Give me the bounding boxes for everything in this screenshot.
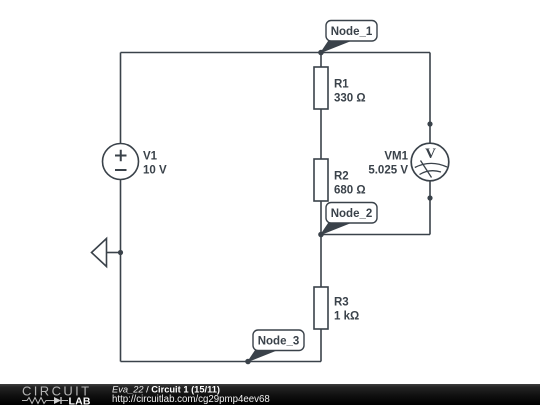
wire: top horizontal right segment (Node_1 to VM1 branch) xyxy=(321,52,430,54)
wire: R1 bottom to R2 top xyxy=(320,109,322,159)
svg-text:LAB: LAB xyxy=(69,396,91,405)
svg-text:5.025 V: 5.025 V xyxy=(368,165,408,177)
VM1 terminal dot top xyxy=(427,121,432,126)
label R1 xyxy=(334,79,349,91)
wire: VM1 bottom lead vertical xyxy=(429,181,431,235)
svg-text:VM1: VM1 xyxy=(384,151,408,163)
svg-text:1 kΩ: 1 kΩ xyxy=(334,311,359,323)
wire: Node_2 to R3 top xyxy=(320,235,322,288)
label VM1 xyxy=(384,151,408,163)
VM1 terminal dot bottom xyxy=(427,195,432,200)
svg-text:Node_1: Node_1 xyxy=(331,26,373,38)
node flag Node_3 xyxy=(248,330,304,362)
wire: left vertical lower (V1 down to bottom wire) xyxy=(120,180,122,362)
wire: R3 bottom to bottom wire xyxy=(320,329,322,362)
svg-text:10 V: 10 V xyxy=(143,165,167,177)
node flag Node_1 xyxy=(321,21,377,53)
wire: Node_1 to R1 top xyxy=(320,53,322,68)
wire: top horizontal left segment (V1 top to Node_1) xyxy=(121,52,322,54)
resistor R2 xyxy=(314,159,328,201)
label R1 value 330 ohm xyxy=(334,93,366,105)
svg-text:Node_2: Node_2 xyxy=(331,208,373,220)
svg-text:330 Ω: 330 Ω xyxy=(334,93,366,105)
svg-text:R1: R1 xyxy=(334,79,349,91)
label R3 xyxy=(334,297,349,309)
wire: Node_2 horizontal to VM1 branch xyxy=(321,234,430,236)
ground junction dot xyxy=(118,250,123,255)
footer bar xyxy=(0,384,540,405)
CircuitLab logo xyxy=(22,384,92,405)
label V1 value 10 V xyxy=(143,165,167,177)
wire: R2 bottom to Node_2 xyxy=(320,201,322,235)
junction dot Node_3 xyxy=(245,359,251,365)
label VM1 value 5.025 V xyxy=(368,165,408,177)
junction dot Node_2 xyxy=(318,232,324,238)
label R2 value 680 ohm xyxy=(334,185,366,197)
label R3 value 1 kohm xyxy=(334,311,359,323)
svg-text:680 Ω: 680 Ω xyxy=(334,185,366,197)
svg-text:R2: R2 xyxy=(334,171,349,183)
svg-text:R3: R3 xyxy=(334,297,349,309)
footer title text xyxy=(112,385,220,395)
node flag Node_2 xyxy=(321,203,377,235)
junction dot Node_1 xyxy=(318,50,324,56)
svg-text:V: V xyxy=(425,146,436,162)
wire: bottom horizontal (V1 bottom to R3 branch) xyxy=(121,361,322,363)
footer url text xyxy=(112,394,270,405)
label R2 xyxy=(334,171,349,183)
resistor R3 xyxy=(314,287,328,329)
voltmeter VM1 xyxy=(411,143,449,181)
wire: left vertical upper (top wire down to V1) xyxy=(120,53,122,144)
voltage source V1 xyxy=(103,144,139,180)
label V1 xyxy=(143,151,158,163)
svg-text:Node_3: Node_3 xyxy=(258,336,300,348)
ground symbol xyxy=(92,239,121,267)
wire: VM1 top lead vertical xyxy=(429,53,431,144)
svg-text:V1: V1 xyxy=(143,151,158,163)
svg-text:http://circuitlab.com/cg29pmp4: http://circuitlab.com/cg29pmp4eev68 xyxy=(112,394,270,405)
resistor R1 xyxy=(314,67,328,109)
